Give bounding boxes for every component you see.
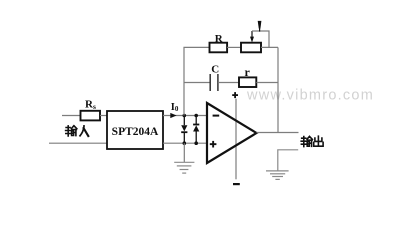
svg-text:Rs: Rs (85, 99, 96, 112)
capacitor C (210, 74, 218, 91)
inverting input marker (213, 115, 220, 117)
current arrow Io (170, 113, 176, 118)
resistor R (210, 43, 228, 53)
op-amp U2 (207, 103, 257, 163)
wire RP to right rail (261, 46, 278, 48)
svg-text:r: r (245, 65, 251, 79)
wiper arrow of RP (250, 31, 254, 43)
wire C to r (218, 82, 239, 84)
wire right rail (feedback to output) (277, 47, 279, 132)
converter U1 SPT204A (107, 111, 163, 149)
diode D2 (193, 116, 199, 144)
svg-text:SPT204A: SPT204A (112, 126, 159, 138)
svg-text:R: R (215, 33, 224, 45)
adjustment arrow (258, 21, 262, 29)
output wire (257, 132, 299, 134)
non-inverting input marker (210, 141, 217, 148)
label + (positive supply) (232, 92, 238, 98)
wire left rail (R/C to inverting node) (184, 47, 210, 115)
wire to non-inverting input (163, 142, 207, 144)
resistor r (239, 77, 256, 87)
output ground lead (278, 150, 298, 171)
label 输入 (input) (66, 126, 89, 136)
potentiometer RP (241, 43, 261, 53)
ground (diode node) (174, 162, 194, 173)
positive supply wire (235, 99, 237, 180)
wire r to right rail (256, 82, 278, 84)
svg-text:www.vibmro.com: www.vibmro.com (246, 88, 374, 104)
wire R to RP (227, 46, 241, 48)
wire C left (184, 82, 210, 84)
diode D1 (181, 116, 187, 144)
wire diode node to ground (183, 143, 185, 162)
ground (output) (266, 171, 289, 180)
node junction dots (183, 114, 199, 145)
svg-text:C: C (211, 64, 219, 76)
svg-text:I0: I0 (171, 102, 179, 113)
wire input top (62, 115, 81, 117)
label - (negative supply) (233, 183, 240, 185)
wiper link wire (252, 31, 269, 47)
wire Rs to U1 (100, 115, 108, 117)
label 输出 (output) (301, 136, 323, 146)
resistor Rs (81, 111, 101, 121)
wire Io (163, 115, 207, 117)
wire input bottom (49, 142, 108, 144)
